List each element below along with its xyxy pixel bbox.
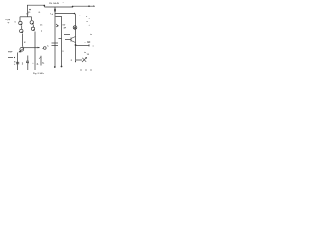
svg-text:50·: 50·	[63, 25, 66, 27]
svg-text:n: n	[14, 61, 16, 64]
transistor Q4	[31, 27, 34, 30]
wire right vertical	[75, 14, 77, 62]
node dot mid	[41, 31, 42, 32]
svg-text:a: a	[87, 21, 89, 23]
wire left drop from rail	[27, 5, 29, 16]
node dots bottom right	[80, 69, 81, 70]
wire dash above Q8	[64, 34, 70, 36]
wire branch to second drop	[56, 17, 62, 67]
svg-text:λ1: λ1	[40, 24, 43, 27]
node junction dot A	[44, 5, 46, 7]
svg-text:k.: k.	[47, 46, 49, 48]
svg-text:15: 15	[87, 54, 90, 56]
wire between Q2 Q3	[21, 26, 23, 30]
wire dash left bottom	[8, 57, 13, 59]
svg-text:k: k	[15, 21, 17, 23]
svg-text:Fig. 2-14 b: Fig. 2-14 b	[33, 72, 44, 75]
wire C2 vertical	[27, 56, 29, 62]
svg-text:d: d	[52, 14, 54, 16]
svg-text:K: K	[24, 42, 26, 44]
wire Q8 base	[65, 39, 71, 41]
wire right branch upper	[31, 17, 33, 21]
wire left branch upper	[19, 17, 21, 22]
wire right branch lower	[34, 32, 36, 71]
wire header horizontal	[20, 16, 32, 18]
wire Q5 emitter drop	[17, 53, 19, 71]
svg-text:7: 7	[63, 2, 65, 4]
svg-text:ts: ts	[90, 33, 93, 36]
wire branch right at y13	[55, 13, 74, 15]
terminal output circle	[44, 47, 47, 50]
wire top rail	[27, 5, 95, 7]
svg-text:t: t	[89, 24, 90, 27]
capacitor C4 plates	[52, 42, 59, 44]
resistor R3 body	[54, 9, 56, 12]
potentiometer arrow lower right	[76, 59, 82, 61]
wire drop from arrow	[40, 56, 42, 66]
wire mid horizontal with arrow	[24, 47, 40, 49]
svg-text:z: z	[71, 59, 73, 62]
svg-text:s: s	[86, 16, 88, 18]
transistor Q2	[19, 21, 22, 24]
svg-text:3: 3	[22, 63, 24, 66]
svg-text:r: r	[89, 18, 90, 20]
wire tick x61	[59, 38, 62, 40]
node junction dot C	[88, 5, 90, 7]
svg-text:q.: q.	[8, 22, 10, 24]
transistor Q7	[73, 26, 77, 30]
svg-text:PNP: PNP	[8, 51, 13, 53]
svg-text:n pp: n pp	[6, 19, 11, 21]
node bottom dot center	[54, 66, 56, 68]
wire Q5 emitter diagonal with arrow	[19, 49, 24, 52]
transistor Q3	[20, 29, 23, 32]
svg-text:-: -	[80, 15, 81, 17]
node dot q1	[29, 9, 30, 10]
svg-text:t: t	[28, 62, 29, 65]
wire center drop	[54, 7, 56, 67]
wire right horizontal	[76, 45, 90, 47]
svg-text:t: t	[33, 62, 34, 65]
svg-text:2.: 2.	[37, 63, 39, 66]
capacitor C1 plates	[16, 61, 19, 63]
capacitor C2 plates	[26, 60, 29, 62]
svg-text:4F: 4F	[64, 27, 67, 30]
svg-text:5.: 5.	[42, 62, 44, 65]
svg-text:G: G	[39, 12, 41, 14]
transistor Q5	[20, 47, 24, 51]
node junction dot B	[72, 6, 74, 8]
node bottom dot center2	[61, 66, 63, 68]
svg-text:- · AN: - · AN	[84, 41, 91, 44]
transistor Q1	[30, 21, 33, 24]
wire between Q1 Q4	[32, 25, 34, 27]
transistor Q6 marks	[56, 24, 59, 26]
wire left branch lower	[22, 34, 24, 47]
svg-text:3: 3	[62, 51, 64, 53]
svg-text:1N· 3A 4V: 1N· 3A 4V	[49, 2, 60, 5]
transistor Q8	[70, 38, 72, 42]
node dot end branch	[74, 13, 76, 15]
node junction right	[75, 44, 77, 46]
svg-text:=: =	[93, 45, 95, 47]
